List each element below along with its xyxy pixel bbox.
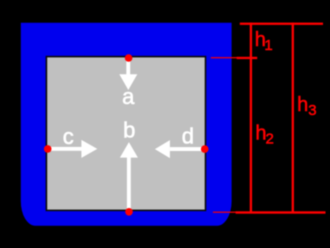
svg-text:c: c — [63, 124, 74, 149]
arrow b (upward buoyant force) — [120, 142, 138, 212]
dimension line top (water surface level) — [240, 23, 323, 25]
arrow a (downward force) — [119, 58, 137, 90]
arrow d (leftward force) — [155, 140, 205, 158]
svg-text:a: a — [122, 84, 135, 109]
svg-text:d: d — [182, 123, 194, 148]
submerged block (gray) — [46, 57, 205, 211]
dimension tick h1 bottom — [237, 57, 258, 59]
node top (red dot) — [125, 54, 133, 62]
dimension vertical line A — [250, 23, 252, 213]
dimension vertical line B — [292, 23, 294, 213]
leader line bottom (gray-block bottom level) — [213, 212, 236, 213]
svg-text:b: b — [123, 117, 135, 142]
node right (red dot) — [201, 145, 209, 153]
water container (blue) — [21, 23, 232, 226]
node bottom (red dot) — [125, 208, 133, 216]
arrow c (rightward force) — [48, 140, 98, 158]
dimension line bottom — [236, 211, 326, 213]
node left (red dot) — [44, 145, 52, 153]
leader line top (gray-block top level) — [211, 57, 237, 58]
